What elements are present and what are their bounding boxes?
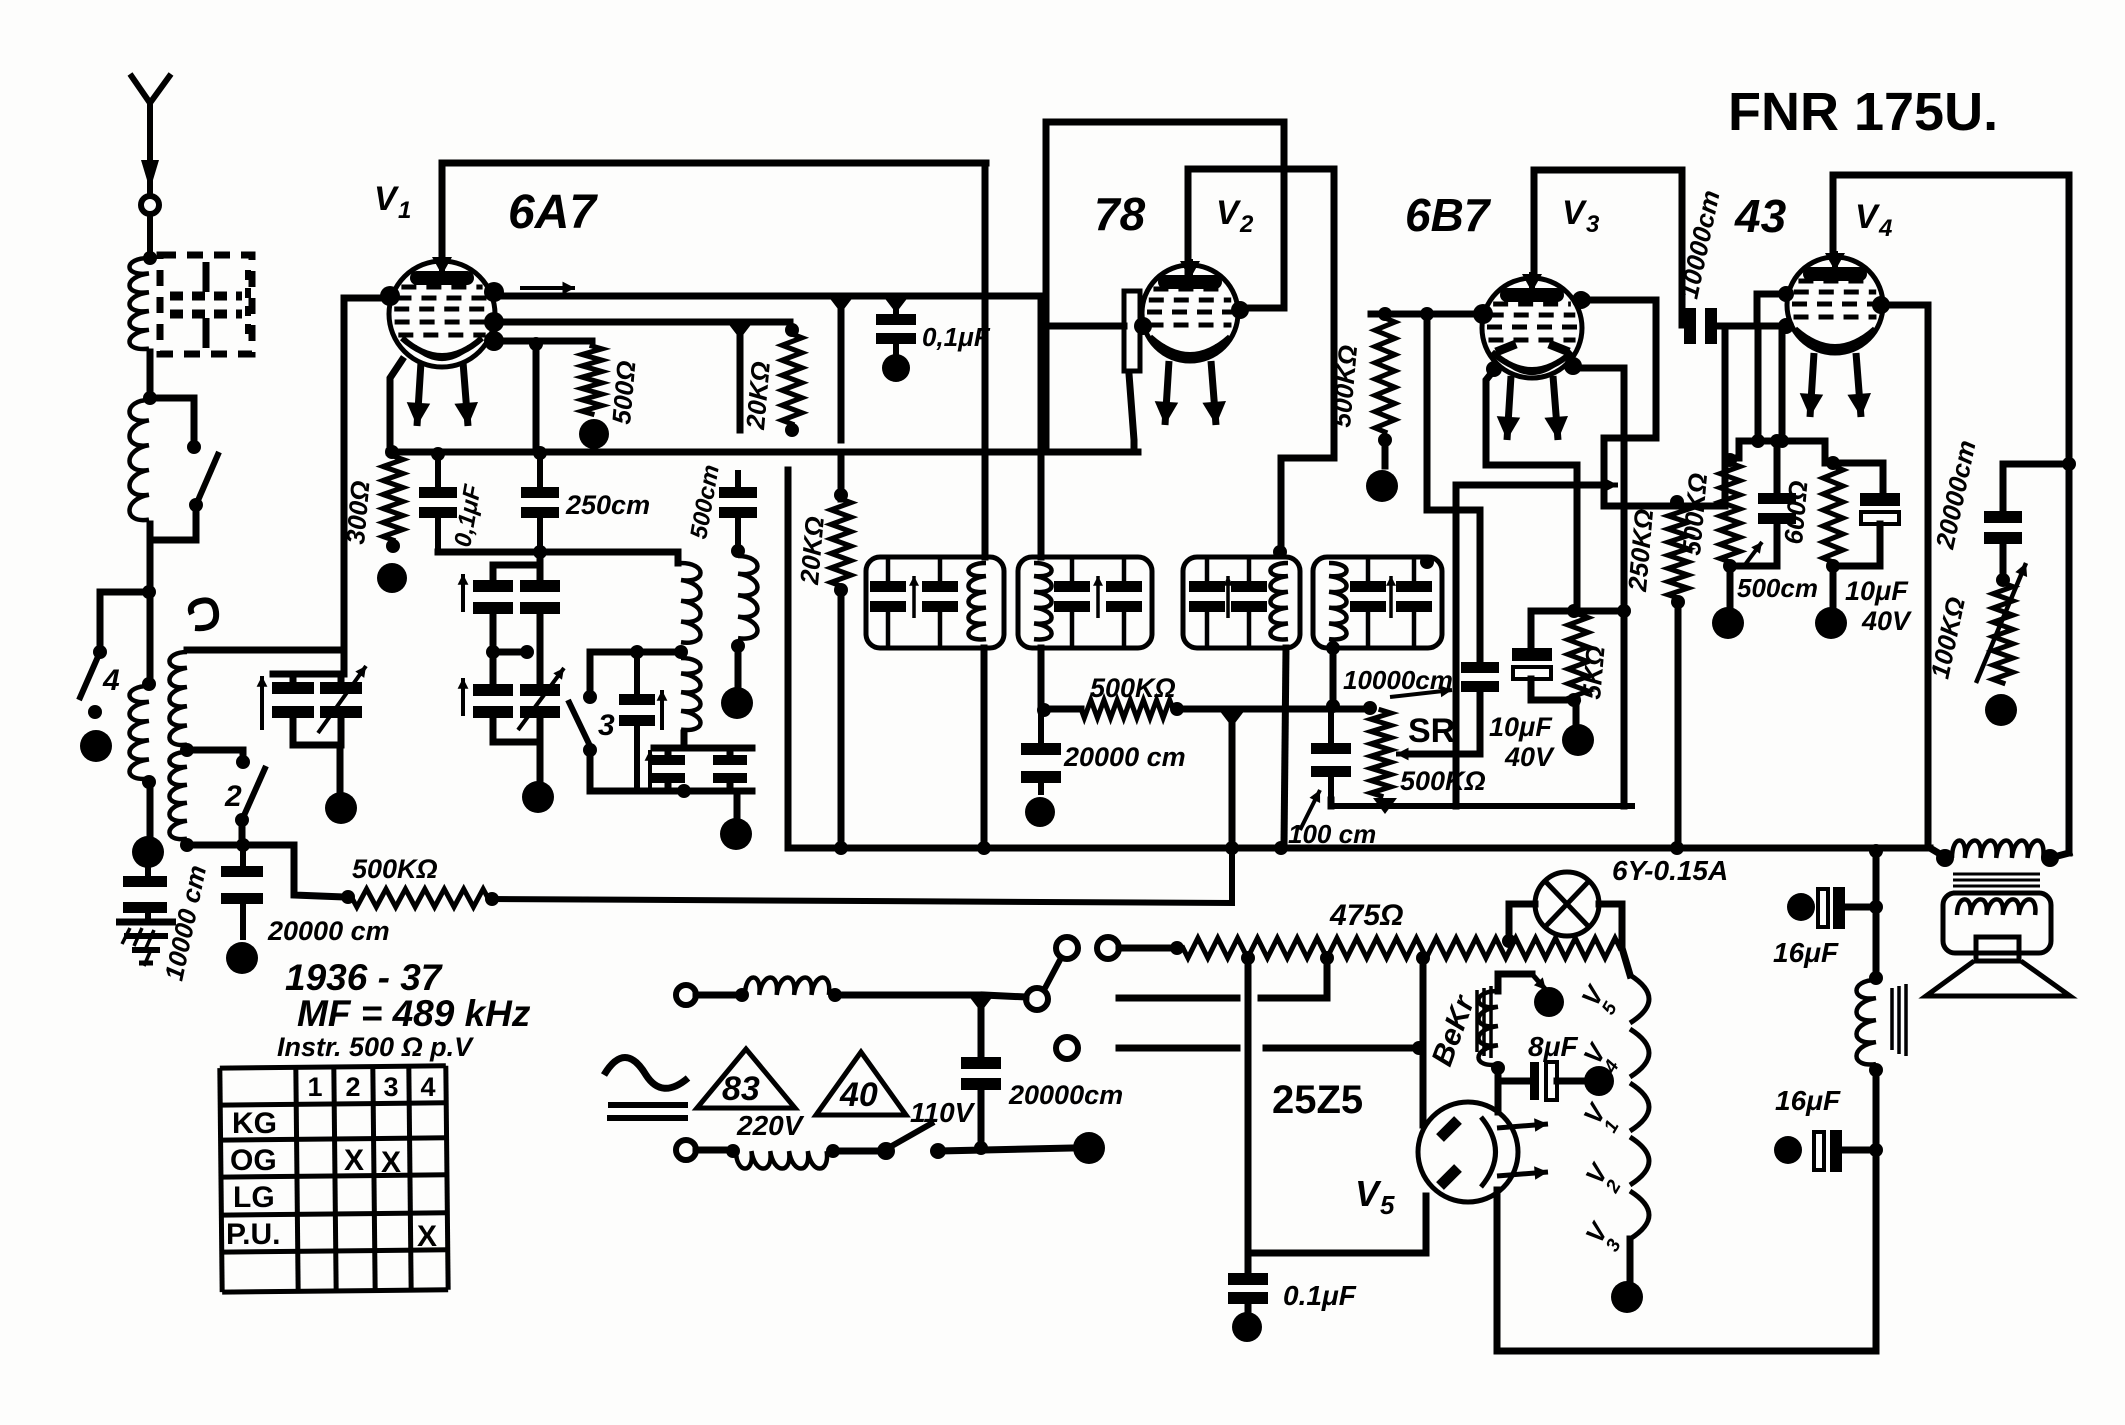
- label 6A7: [508, 186, 598, 239]
- wire right bus down: [982, 163, 989, 557]
- V4 top rail: [1833, 175, 2069, 258]
- trimmer arrow: [458, 574, 469, 612]
- V2 grid return wire: [1129, 374, 1134, 452]
- svg-text:20000cm: 20000cm: [1008, 1080, 1123, 1110]
- wire IFT1 bottom: [981, 648, 988, 845]
- switch 110V: [877, 1122, 946, 1160]
- X mark OG2: [344, 1144, 364, 1177]
- terminal: [1366, 470, 1398, 502]
- capacitor 10uF 40V #1: [1512, 611, 1581, 722]
- wire IFT1 sec top: [1038, 296, 1045, 557]
- label 500K ohm SR: [1400, 766, 1486, 796]
- label 10uF 40V #2: [1845, 576, 1912, 636]
- terminal: [1534, 987, 1564, 1017]
- switch 3: [568, 690, 597, 791]
- wire: [833, 1148, 880, 1155]
- wire to switch: [984, 995, 1026, 997]
- label MF=489kHz: [297, 993, 531, 1034]
- label 500K ohm 3: [1326, 344, 1363, 429]
- junction: [968, 995, 994, 1057]
- wire cap bottoms: [438, 545, 678, 559]
- rotary switch: [1026, 937, 1119, 1059]
- antenna: [130, 74, 171, 196]
- svg-text:OG: OG: [230, 1144, 277, 1177]
- triangle 40 (110V): [816, 1052, 906, 1115]
- svg-text:40: 40: [839, 1076, 878, 1114]
- node: [1241, 951, 1255, 965]
- trimmer arrow diag: [318, 666, 366, 733]
- svg-text:10μF: 10μF: [1489, 712, 1553, 742]
- terminal: [721, 687, 753, 719]
- node: [1326, 641, 1340, 655]
- label 20000 cm IF: [1063, 742, 1186, 772]
- wire: [1873, 1070, 1880, 1351]
- resistor 500K ohm grid leak: [1720, 453, 1740, 573]
- wire IFT1 sec bottom: [1038, 648, 1045, 710]
- speaker field coil: [1857, 971, 1907, 1077]
- label 220V: [736, 1110, 805, 1141]
- wire: [147, 352, 154, 398]
- node: [1491, 1061, 1505, 1075]
- label 500cm: [685, 463, 725, 541]
- ground: [116, 922, 176, 966]
- resistor 475 ohm: [1119, 938, 1620, 958]
- oscillator coil L5a: [681, 563, 701, 643]
- resistor 500K ohm IF: [1044, 700, 1184, 718]
- svg-text:3: 3: [383, 1072, 398, 1102]
- wire osc tap: [590, 652, 681, 692]
- node: [1326, 699, 1340, 713]
- capacitor 10000cm coupling: [1684, 308, 1717, 344]
- V2 top cap wire: [1188, 169, 1334, 458]
- V4 cathode wires: [1730, 333, 1883, 493]
- label 250cm: [565, 490, 650, 520]
- svg-text:5: 5: [1380, 1190, 1395, 1220]
- svg-text:SR: SR: [1408, 712, 1455, 750]
- svg-text:1936 - 37: 1936 - 37: [285, 957, 444, 998]
- label V2: [1216, 194, 1254, 238]
- label 0.1uF: [449, 481, 487, 549]
- svg-text:78: 78: [1094, 188, 1146, 240]
- trimmer arrow: [458, 678, 469, 716]
- V2 plate dot: [1231, 301, 1249, 319]
- switch 1: [150, 440, 219, 540]
- X mark OG3: [381, 1146, 401, 1179]
- RF choke coil: [738, 556, 758, 639]
- label BeKr: [1426, 990, 1482, 1071]
- tuning capacitor C2b: [520, 580, 560, 614]
- trimmer arrow diag: [518, 668, 564, 730]
- wire bottom of loop coil: [187, 845, 344, 897]
- V3 screen wire: [1572, 368, 1624, 806]
- potentiometer 100K ohm: [1976, 563, 2027, 683]
- capacitor 100cm: [1311, 706, 1351, 806]
- wire to switch 4: [100, 592, 149, 645]
- V2 grid bar: [1046, 291, 1140, 371]
- loop antenna coil L3: [130, 686, 150, 779]
- svg-text:1: 1: [398, 197, 411, 224]
- svg-text:110V: 110V: [910, 1097, 976, 1128]
- switch 2: [235, 755, 266, 845]
- tuning capacitor C1a: [272, 682, 314, 718]
- label 10000cm det: [1343, 665, 1453, 697]
- terminal: [522, 781, 554, 813]
- tube V4 43: [1787, 251, 1890, 417]
- junction: [727, 322, 753, 339]
- capacitor 500cm: [719, 470, 757, 548]
- wire switch row2: [1119, 958, 1327, 998]
- table header 3: [383, 1072, 398, 1102]
- capacitor 10000cm det: [1461, 662, 1499, 694]
- mains plug bottom: [676, 1140, 740, 1160]
- table header 2: [345, 1072, 360, 1102]
- svg-text:V: V: [1562, 194, 1588, 232]
- V1 line3 (screen): [492, 337, 592, 450]
- wire: [147, 524, 154, 592]
- label V1: [374, 180, 411, 224]
- terminal: [1025, 797, 1055, 827]
- label heater V1: [1577, 1097, 1623, 1137]
- svg-text:4: 4: [1878, 215, 1892, 242]
- tuning capacitor C1b: [320, 682, 362, 718]
- svg-text:KG: KG: [232, 1107, 277, 1140]
- X mark PU4: [417, 1220, 437, 1253]
- label 500K ohm: [352, 854, 438, 884]
- node: [977, 841, 991, 855]
- terminal: [325, 792, 357, 824]
- node: [485, 892, 499, 906]
- label 2: [224, 780, 242, 813]
- node: [180, 838, 194, 852]
- wire gang mid: [486, 614, 540, 684]
- table header 4: [420, 1072, 435, 1102]
- switch 4: [79, 645, 107, 719]
- label 16uF lower: [1775, 1085, 1841, 1116]
- tuning capacitor C3b: [520, 684, 560, 718]
- speaker: [1926, 937, 2070, 996]
- wire IFT2 sec bottom: [1330, 648, 1337, 702]
- node: [1037, 703, 1051, 717]
- wire: [838, 304, 845, 440]
- label 20K ohm: [740, 360, 776, 431]
- svg-text:500cm: 500cm: [1737, 573, 1818, 603]
- tube V3 6B7: [1473, 272, 1590, 440]
- IF transformer 1 secondary: [1018, 557, 1152, 648]
- svg-text:10μF: 10μF: [1845, 576, 1909, 606]
- svg-text:600Ω: 600Ω: [1778, 479, 1813, 545]
- dial lamp: [1509, 872, 1622, 946]
- rail A (B-): [788, 848, 1945, 857]
- svg-text:500KΩ: 500KΩ: [1400, 766, 1486, 796]
- capacitor 20000cm IF: [1021, 710, 1061, 795]
- oscillator coil L4a: [169, 652, 187, 745]
- label V5: [1355, 1173, 1395, 1220]
- label 10000cm coupling: [1674, 188, 1726, 302]
- wire gang top: [493, 552, 540, 580]
- label 5K ohm: [1576, 645, 1611, 701]
- svg-text:X: X: [417, 1220, 437, 1253]
- label heater V3: [1579, 1216, 1626, 1256]
- label 20000cm mains: [1008, 1080, 1123, 1110]
- label 0,1uF: [922, 322, 991, 352]
- svg-text:83: 83: [722, 1070, 760, 1108]
- AVC line: [1177, 706, 1371, 713]
- svg-text:40V: 40V: [1504, 742, 1555, 772]
- trimmer arrow: [257, 676, 268, 730]
- heater chain bumps: [1630, 975, 1649, 1239]
- label 20000 cm: [267, 916, 390, 946]
- node: [674, 645, 688, 659]
- label FNR 175U: [1728, 82, 1998, 142]
- table row LG: [233, 1181, 275, 1214]
- capacitor 16uF upper: [1787, 887, 1876, 929]
- label 4: [102, 664, 120, 697]
- node: [180, 743, 194, 757]
- svg-text:1: 1: [307, 1072, 322, 1102]
- svg-text:LG: LG: [233, 1181, 275, 1214]
- terminal: [1584, 1066, 1614, 1096]
- node: [1320, 951, 1334, 965]
- trimmer arrow: [657, 690, 668, 730]
- padder capacitor: [619, 645, 655, 791]
- terminal: [1985, 694, 2017, 726]
- label 6B7: [1405, 189, 1492, 241]
- tube V5 25Z5: [1418, 1102, 1518, 1202]
- svg-text:20KΩ: 20KΩ: [794, 515, 830, 586]
- wire AVC rail: [492, 852, 1232, 903]
- svg-text:MF = 489 kHz: MF = 489 kHz: [297, 993, 531, 1034]
- svg-text:40V: 40V: [1861, 606, 1912, 636]
- svg-text:Instr. 500 Ω p.V: Instr. 500 Ω p.V: [277, 1032, 474, 1062]
- svg-text:0,1μF: 0,1μF: [922, 322, 991, 352]
- V5 anode arrows: [1497, 1118, 1548, 1180]
- wire det cap to SR wiper: [1410, 693, 1480, 754]
- wave band coil L2: [130, 400, 150, 520]
- label 500 ohm: [606, 359, 641, 425]
- output transformer primary: [1936, 840, 2059, 892]
- wire tuning cap bottom: [293, 718, 341, 790]
- node: [731, 544, 745, 558]
- V5 cathode wire: [1497, 1190, 1876, 1351]
- resistor 500K ohm AVC2: [1371, 307, 1483, 466]
- wire switch2 top: [187, 750, 243, 758]
- 25Z5 feed left: [1248, 958, 1426, 1253]
- terminal: [1562, 724, 1594, 756]
- capacitor 10uF 40V #2: [1833, 493, 1900, 606]
- V3 top cap wire: [1534, 170, 1680, 276]
- V3 cathode wire 2: [1456, 479, 1618, 806]
- terminal: [377, 563, 407, 593]
- V3 diode wire: [1427, 314, 1480, 662]
- V4 grid line: [1718, 286, 1794, 334]
- svg-text:6Y-0.15A: 6Y-0.15A: [1612, 855, 1728, 886]
- svg-text:6A7: 6A7: [508, 186, 598, 239]
- svg-text:500KΩ: 500KΩ: [1090, 673, 1176, 703]
- terminal: [1712, 607, 1744, 639]
- line filter choke 1: [745, 977, 829, 995]
- svg-text:V: V: [1355, 1173, 1382, 1214]
- diode plates V3: [1496, 344, 1569, 352]
- junction: [1373, 798, 1397, 814]
- table row KG: [232, 1107, 277, 1140]
- wire to osc coil: [675, 552, 682, 563]
- output transformer secondary: [1943, 893, 2051, 953]
- terminal: [1232, 1312, 1262, 1342]
- label 6V-0.15A: [1612, 855, 1728, 886]
- speaker B+ bus: [2050, 175, 2069, 858]
- chassis terminal: [132, 836, 164, 868]
- svg-text:2: 2: [1239, 211, 1254, 238]
- resistor 5K ohm: [1531, 604, 1631, 702]
- antenna coupling coil L1: [130, 258, 150, 349]
- tube V2 78: [1134, 259, 1238, 425]
- signal arrow: [520, 282, 575, 295]
- svg-text:2: 2: [345, 1072, 360, 1102]
- label heater V5: [1575, 979, 1622, 1019]
- table row PU: [226, 1218, 280, 1251]
- label 3: [598, 709, 615, 742]
- node: [236, 838, 250, 852]
- wire: [835, 992, 978, 999]
- IF transformer 2 primary: [1183, 557, 1300, 648]
- terminal: [579, 419, 609, 449]
- label 500K ohm 4: [1676, 472, 1713, 557]
- node IFT2 sec top: [1420, 555, 1434, 569]
- V3 grid line: [1371, 307, 1483, 321]
- svg-text:220V: 220V: [736, 1110, 805, 1141]
- label 20000cm tone: [1929, 438, 1981, 553]
- label 78: [1094, 188, 1146, 240]
- svg-text:475Ω: 475Ω: [1329, 899, 1403, 932]
- table row OG: [230, 1144, 277, 1177]
- node: [834, 841, 848, 855]
- node: [826, 1144, 840, 1158]
- label 100 cm: [1288, 790, 1376, 849]
- node: [142, 677, 156, 691]
- resistor 600 ohm: [1823, 466, 1843, 573]
- field coil BeKr: [1477, 986, 1498, 1065]
- wire: [147, 592, 154, 684]
- svg-text:16μF: 16μF: [1775, 1085, 1841, 1116]
- svg-text:25Z5: 25Z5: [1272, 1078, 1363, 1122]
- svg-text:FNR 175U.: FNR 175U.: [1728, 82, 1998, 142]
- SR wiper arrow: [1396, 748, 1440, 761]
- svg-text:0.1μF: 0.1μF: [1283, 1280, 1357, 1311]
- oscillator coil L5b: [681, 658, 701, 730]
- V4 plate wire: [1873, 297, 1928, 848]
- mains plug top: [676, 985, 749, 1005]
- svg-text:3: 3: [598, 709, 615, 742]
- node: [731, 639, 745, 653]
- V2 left side down: [1043, 296, 1050, 452]
- resistor 250K ohm: [1668, 495, 1688, 848]
- capacitor 250cm: [521, 446, 559, 552]
- label 500K ohm IF: [1090, 673, 1176, 703]
- wire gang bottom: [493, 718, 540, 779]
- svg-text:20000 cm: 20000 cm: [1063, 742, 1186, 772]
- label 475 ohm: [1329, 899, 1403, 932]
- capacitor 0.1uF grid: [876, 304, 916, 356]
- label 43: [1734, 190, 1787, 242]
- svg-text:250cm: 250cm: [565, 490, 650, 520]
- label V4: [1855, 198, 1892, 242]
- label 10000cm (vertical): [159, 862, 213, 983]
- node: [1225, 841, 1239, 855]
- node: [1502, 934, 1516, 948]
- V3 plate wire: [1575, 292, 1725, 506]
- label 0.1uF 25Z5: [1283, 1280, 1357, 1311]
- wire to switch 1: [150, 398, 194, 440]
- wire field coil column: [1869, 851, 1883, 976]
- BeKr bottom wire: [1495, 1068, 1502, 1112]
- label 500cm 2: [1737, 573, 1818, 603]
- shield box (dashed): [160, 255, 252, 354]
- capacitor 10000cm: [123, 866, 167, 920]
- line filter choke 2: [736, 1151, 827, 1169]
- node: [1274, 841, 1288, 855]
- svg-text:P.U.: P.U.: [226, 1218, 280, 1251]
- wire 10000cm cap feed: [1679, 170, 1686, 325]
- svg-text:16μF: 16μF: [1773, 937, 1839, 968]
- capacitor 20000cm tone: [1984, 511, 2022, 577]
- node band junction: [142, 585, 156, 599]
- junction: [883, 296, 909, 313]
- resistor 500K ohm (AVC): [352, 889, 488, 907]
- svg-text:5KΩ: 5KΩ: [1576, 645, 1611, 701]
- resistor 500 ohm: [582, 346, 602, 414]
- svg-text:X: X: [381, 1146, 401, 1179]
- wire osc coil to padder: [654, 733, 752, 755]
- node: [828, 988, 842, 1002]
- resistor 20K ohm screen: [831, 456, 851, 845]
- terminal: [226, 942, 258, 974]
- table header 1: [307, 1072, 322, 1102]
- wire: [737, 330, 744, 430]
- wire coil top to grid line: [187, 298, 392, 674]
- svg-text:4: 4: [102, 664, 120, 697]
- svg-text:2: 2: [224, 780, 242, 813]
- label 25Z5: [1272, 1078, 1363, 1122]
- node: [1670, 841, 1684, 855]
- tuning capacitor C2a: [473, 580, 513, 614]
- resistor 300 ohm: [383, 445, 403, 553]
- node switch1 tap: [143, 391, 157, 405]
- terminal: [1611, 1281, 1643, 1313]
- svg-text:20KΩ: 20KΩ: [740, 360, 776, 431]
- label 16uF upper: [1773, 937, 1839, 968]
- junction: [828, 296, 854, 313]
- label 250K ohm: [1622, 508, 1659, 594]
- tone branch: [2003, 464, 2069, 511]
- label 300 ohm: [340, 479, 375, 545]
- wire tuning cap top rail: [273, 674, 344, 682]
- wire: [938, 1141, 1074, 1155]
- AC symbol: [604, 1058, 688, 1089]
- junction: [1219, 710, 1245, 848]
- terminal: [1815, 607, 1847, 639]
- label 20K ohm 2: [794, 515, 830, 586]
- wire: [1727, 566, 1734, 606]
- capacitor 16uF lower: [1774, 1130, 1883, 1172]
- node: [1416, 951, 1430, 965]
- terminal P.U.: [80, 730, 112, 762]
- label 600 ohm: [1778, 479, 1813, 545]
- node: [341, 890, 355, 904]
- wire V1 top cap to rail: [442, 163, 986, 262]
- potentiometer SR 500K: [1363, 701, 1391, 796]
- V3 cathode wire 1: [1486, 361, 1577, 611]
- terminal: [720, 818, 752, 850]
